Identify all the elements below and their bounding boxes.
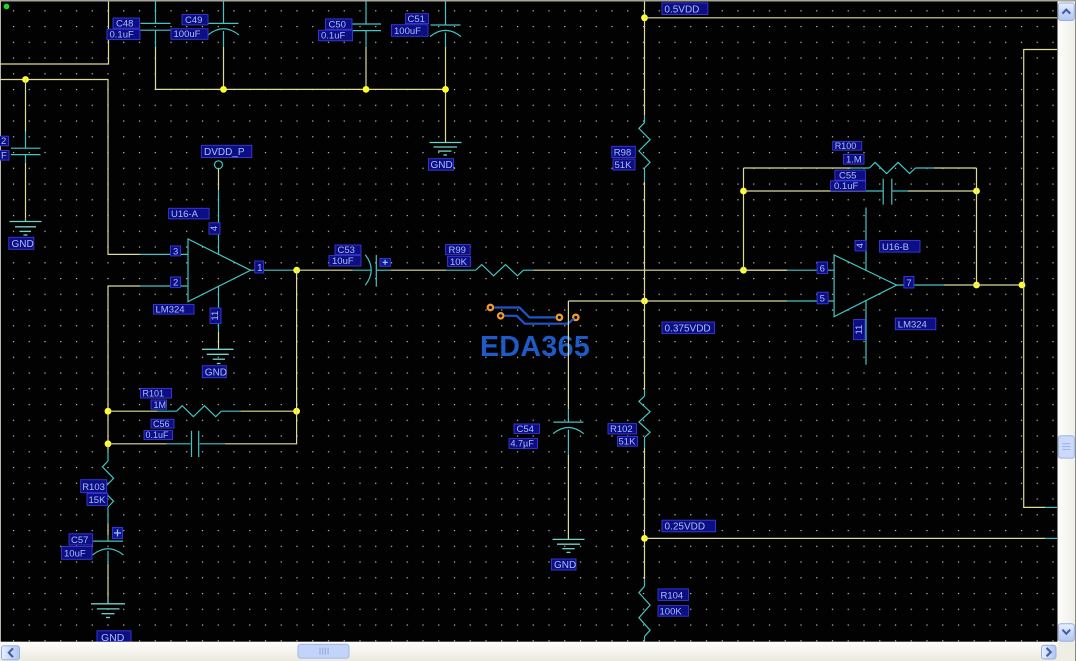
capacitor C52 (clipped at left edge) <box>11 132 41 163</box>
svg-text:0.1uF: 0.1uF <box>110 30 134 41</box>
label 0.5VDD <box>662 3 708 16</box>
ground symbol below C54 <box>553 539 585 552</box>
svg-text:C55: C55 <box>839 171 856 182</box>
wire: pin2 net down the left column <box>108 286 140 444</box>
junction 0.375VDD tap <box>641 298 648 305</box>
label R103 <box>81 480 107 494</box>
svg-text:C53: C53 <box>338 245 355 256</box>
svg-text:4.7µF: 4.7µF <box>511 439 535 449</box>
resistor R103 <box>102 450 113 524</box>
pin number 11 of U16-B (rotated) <box>854 320 866 340</box>
pin number 1 <box>255 261 264 274</box>
svg-text:GND: GND <box>205 367 227 378</box>
horizontal scrollbar right button <box>1042 645 1057 659</box>
svg-text:3: 3 <box>173 246 178 257</box>
wire: tap to U16-B pin 6 <box>744 269 788 271</box>
resistor R101 <box>157 406 241 417</box>
horizontal scrollbar left button <box>2 646 20 660</box>
label R101 <box>141 389 172 399</box>
junction 0.25VDD <box>641 535 648 542</box>
junction feedback left / C55 branch <box>740 188 747 195</box>
label C51 value 100uF <box>392 25 429 37</box>
label GND (C54 ground) <box>552 559 577 571</box>
svg-text:C49: C49 <box>185 15 202 26</box>
label GND (U16-A ground) <box>202 366 227 379</box>
label C55 <box>835 170 866 182</box>
op-amp U16-A body <box>188 239 251 302</box>
label GND (bottom-left ground) <box>97 631 131 644</box>
wire: short stub below C56 junction <box>107 444 109 450</box>
svg-text:10uF: 10uF <box>332 256 354 267</box>
pin number 2 <box>171 277 181 289</box>
label fragment 2 (clipped C52 name) <box>0 136 9 147</box>
pin number 11 of U16-A (rotated) <box>210 308 221 324</box>
horizontal scrollbar thumb <box>298 644 349 658</box>
label C50 value 0.1uF <box>319 30 353 42</box>
wire: C53 to R99 <box>391 269 446 271</box>
svg-text:U16-B: U16-B <box>882 242 909 253</box>
vertical scrollbar down button <box>1058 624 1074 642</box>
label C55 value 0.1uF <box>831 181 866 192</box>
wire: C56 branch right segment up to output <box>225 270 297 444</box>
scrollbar corner <box>1058 642 1076 661</box>
capacitor C51 (electrolytic) <box>430 2 461 48</box>
resistor R100 <box>851 162 935 173</box>
svg-text:C50: C50 <box>329 19 346 30</box>
capacitor C49 (electrolytic) <box>208 2 239 48</box>
svg-text:1: 1 <box>257 263 263 274</box>
svg-text:1.M: 1.M <box>846 155 862 166</box>
op-amp U16-A pin 2 <box>140 285 188 287</box>
wire: VDD rail mid segment <box>644 182 646 390</box>
label LM324 (U16-B) <box>895 318 936 331</box>
svg-text:100K: 100K <box>660 606 683 617</box>
svg-text:5: 5 <box>820 294 825 305</box>
polarity plus of C53 <box>380 259 391 267</box>
wire: feedback right vertical <box>976 168 978 285</box>
wire: top-left lower rail y=79.5 into pin3 drop <box>0 80 140 255</box>
svg-text:R100: R100 <box>835 141 857 151</box>
svg-text:R104: R104 <box>661 590 684 601</box>
label 0.375VDD <box>662 322 715 335</box>
ground symbol below U16-A <box>202 349 234 363</box>
label U16-B <box>880 241 921 254</box>
svg-text:2: 2 <box>1 136 6 147</box>
svg-text:0.1uF: 0.1uF <box>321 31 345 42</box>
junction 0.5VDD <box>641 14 648 21</box>
vertical scrollbar track <box>1058 2 1076 643</box>
EDA365 logo pad 2 <box>498 313 503 318</box>
label C50 <box>326 19 353 31</box>
op-amp U16-B pin 4 <box>865 208 867 271</box>
EDA365 logo trace upper <box>494 308 555 318</box>
label R98 <box>612 146 636 158</box>
capacitor C55 <box>865 179 908 205</box>
ground symbol bottom-left <box>91 597 125 617</box>
label C48 <box>113 18 140 29</box>
svg-text:EDA365: EDA365 <box>480 331 590 363</box>
svg-text:R101: R101 <box>143 389 165 399</box>
wire: R103 to C57 <box>107 524 109 536</box>
svg-text:C56: C56 <box>153 419 170 429</box>
label R103 value 15K <box>87 493 108 506</box>
pin number 3 <box>171 246 181 257</box>
svg-text:7: 7 <box>906 278 911 289</box>
label R102 <box>608 424 637 436</box>
svg-text:51K: 51K <box>619 436 637 447</box>
svg-text:6: 6 <box>820 264 825 275</box>
op-amp U16-A pin 3 <box>140 253 188 255</box>
resistor R102 <box>639 390 650 449</box>
svg-text:1M: 1M <box>154 400 167 410</box>
svg-text:F: F <box>1 151 7 162</box>
wire: C55 branch right segment <box>908 190 977 192</box>
junction at sheet entry <box>1019 282 1026 289</box>
label U16-A <box>169 208 210 220</box>
wire: DVDD_P stub to pin4 <box>218 169 220 190</box>
capacitor C53 (electrolytic, horizontal) <box>353 255 392 287</box>
svg-text:C57: C57 <box>71 535 88 546</box>
svg-text:R103: R103 <box>82 482 105 493</box>
label R104 value 100K <box>658 606 689 618</box>
op-amp U16-B pin 7 <box>897 284 944 286</box>
wire: feedback left vertical <box>743 168 745 270</box>
ground symbol below C52 <box>10 219 42 235</box>
resistor R99 <box>446 265 534 276</box>
svg-text:C51: C51 <box>408 14 425 25</box>
label C57 <box>69 534 93 546</box>
window top border <box>0 0 1076 2</box>
wire: C55 branch left segment <box>744 190 866 192</box>
op-amp U16-A pin 4 <box>218 190 220 254</box>
svg-text:100uF: 100uF <box>394 26 421 37</box>
svg-text:0.375VDD: 0.375VDD <box>665 324 711 335</box>
junction C49 rail <box>220 86 227 93</box>
junction R101 left <box>105 408 112 415</box>
wire: VDD rail top segment <box>644 2 646 116</box>
wire: R101 branch right segment <box>241 410 297 412</box>
wire: R99 to U16-B pin 6 net <box>534 269 788 271</box>
wire: R100 to feedback right vertical <box>934 167 977 169</box>
label C56 <box>151 419 174 429</box>
label R100 <box>833 141 862 151</box>
resistor R104 <box>639 579 650 641</box>
junction at U16-A output <box>293 267 300 274</box>
window right border <box>1075 0 1076 661</box>
svg-text:C54: C54 <box>517 424 534 435</box>
pin number 4 of U16-A (rotated) <box>209 223 220 234</box>
junction feedback right / output <box>973 282 980 289</box>
label GND for C52 ground <box>9 237 34 250</box>
svg-text:0.25VDD: 0.25VDD <box>665 522 706 533</box>
junction C51 rail <box>442 86 449 93</box>
wire: C54 to ground <box>567 455 569 539</box>
label C56 value 0.1uF <box>144 430 173 440</box>
svg-text:0.1uF: 0.1uF <box>146 430 170 440</box>
label R100 value 1.M <box>844 154 865 165</box>
label R99 <box>446 245 471 257</box>
op-amp U16-B body <box>834 255 897 317</box>
wire: 0.5VDD rail to right <box>645 17 1058 19</box>
EDA365 logo pad 4 <box>573 315 578 320</box>
wire: feedback top branch to R100 <box>744 167 851 169</box>
pin number 7 <box>904 276 914 289</box>
op-amp U16-B pin 11 <box>865 301 867 365</box>
label R104 <box>658 589 689 602</box>
label DVDD_P <box>201 145 252 158</box>
capacitor C54 (electrolytic) <box>553 409 584 455</box>
op-amp U16-B pin 5 <box>787 300 834 302</box>
vertical scrollbar thumb <box>1058 436 1074 458</box>
svg-text:4: 4 <box>209 226 220 231</box>
label 0.25VDD <box>662 520 716 533</box>
wire: C57 to ground <box>107 564 109 597</box>
svg-text:10K: 10K <box>450 257 468 268</box>
feedback junction (pin6 tap) <box>740 267 747 274</box>
op-amp U16-A pin 1 <box>251 269 297 271</box>
svg-text:0.5VDD: 0.5VDD <box>664 4 699 15</box>
label C57 value 10uF <box>62 547 93 560</box>
wire: top-left upper rail y=64 <box>0 2 109 65</box>
svg-text:R98: R98 <box>614 148 631 159</box>
svg-text:GND: GND <box>554 560 576 571</box>
label C54 <box>514 424 540 435</box>
junction on rail at C52 <box>22 76 29 83</box>
wire: C48 bottom stem <box>155 47 157 89</box>
wire: VDD rail to 0.25VDD and down to R104 <box>644 448 646 579</box>
label R102 value 51K <box>618 436 638 447</box>
label C53 value 10uF <box>329 256 361 268</box>
capacitor C57 (electrolytic) <box>93 535 124 564</box>
svg-text:11: 11 <box>854 325 865 335</box>
svg-text:15K: 15K <box>89 495 107 506</box>
wire: C49 bottom stem <box>223 47 225 89</box>
wire: C52 top stem <box>25 80 27 132</box>
wire: C50 bottom stem <box>365 47 367 89</box>
label R101 value 1M <box>151 400 167 410</box>
label C53 <box>335 245 361 256</box>
label LM324 (U16-A) <box>154 305 195 316</box>
junction feedback right / C55 <box>973 188 980 195</box>
wire: 0.375VDD horizontal to pin 5 <box>568 300 787 302</box>
resistor R98 <box>639 115 650 181</box>
svg-text:10uF: 10uF <box>64 549 86 560</box>
pin number 6 <box>817 262 828 275</box>
sheet connector rectangle at right edge <box>1024 50 1057 508</box>
svg-text:DVDD_P: DVDD_P <box>204 147 245 158</box>
op-amp U16-B pin 6 <box>787 269 834 271</box>
polarity plus of C57 <box>113 527 123 538</box>
EDA365 logo trace lower <box>504 316 573 324</box>
label C49 <box>182 15 208 27</box>
power port DVDD_P circle <box>215 161 223 169</box>
svg-text:0.1uF: 0.1uF <box>834 181 858 192</box>
svg-text:LM324: LM324 <box>898 320 927 331</box>
wire: output to C53 <box>297 269 353 271</box>
wire: C54 stem <box>567 301 569 409</box>
junction C50 rail <box>363 86 370 93</box>
svg-text:U16-A: U16-A <box>171 209 199 220</box>
svg-text:R102: R102 <box>610 424 633 435</box>
svg-text:R99: R99 <box>449 245 466 256</box>
capacitor C56 <box>167 431 225 457</box>
wire: C56 branch left segment <box>108 443 167 445</box>
junction R101 right <box>293 408 300 415</box>
label C54 value 4.7uF <box>509 439 538 449</box>
svg-text:100uF: 100uF <box>174 29 201 40</box>
label C49 value 100uF <box>171 29 208 41</box>
wire: C51 bottom stem and drop to ground <box>445 47 447 142</box>
label C48 value 0.1uF <box>107 29 140 41</box>
wire: R101 branch left segment <box>108 410 157 412</box>
wire: U16-B output to right <box>944 284 1024 286</box>
label R98 value 51K <box>613 159 635 171</box>
label C51 <box>406 14 429 25</box>
EDA365 logo pad 3 <box>557 315 562 320</box>
svg-text:C48: C48 <box>116 18 133 29</box>
wire: 0.25VDD rail clipped pin tip <box>1045 537 1057 539</box>
wire: 0.25VDD rail to right <box>645 537 1046 539</box>
pin number 5 <box>817 292 828 305</box>
label fragment F (clipped C52 value) <box>0 151 9 162</box>
horizontal scrollbar track <box>0 642 1058 661</box>
op-amp U16-A pin 11 <box>218 286 220 332</box>
sheet connector clipped pin tip <box>1045 506 1057 508</box>
label GND. below C51 <box>429 159 456 171</box>
wire: C52 bottom lead to ground <box>25 163 27 219</box>
svg-text:GND.: GND. <box>431 160 456 171</box>
svg-text:51K: 51K <box>615 160 633 171</box>
junction C56 left <box>105 440 112 447</box>
label R99 value 10K <box>448 256 471 268</box>
capacitor C50 <box>351 2 381 48</box>
svg-text:GND: GND <box>12 239 34 250</box>
wire: pin 11 to ground <box>218 332 220 349</box>
ground symbol below C51 <box>430 143 462 156</box>
svg-text:2: 2 <box>173 278 178 289</box>
EDA365 logo pad 1 <box>488 305 493 310</box>
pin number 4 of U16-B (rotated) <box>855 241 866 251</box>
svg-text:11: 11 <box>210 311 221 321</box>
capacitor C48 <box>141 2 171 48</box>
wire: decoupling bottom rail y=89.4 <box>156 88 446 90</box>
svg-text:4: 4 <box>855 243 866 248</box>
window left border <box>0 0 1 642</box>
vertical scrollbar up button <box>1058 3 1074 21</box>
svg-text:LM324: LM324 <box>156 305 185 316</box>
origin marker green dot <box>4 4 10 10</box>
